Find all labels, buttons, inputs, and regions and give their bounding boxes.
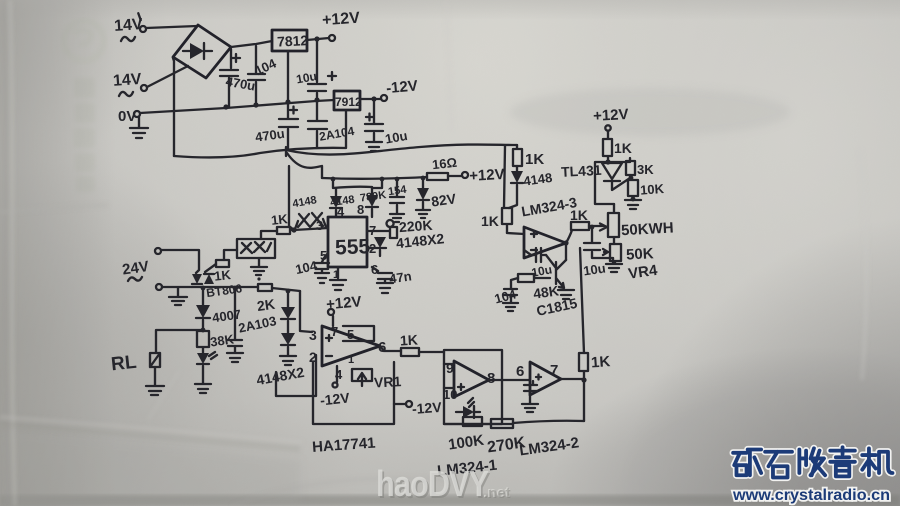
capacitor 10u A (308, 41, 336, 100)
thyristor pair BT806 (192, 274, 202, 284)
label LM324-3 (520, 194, 578, 220)
ground LED (195, 384, 211, 393)
resistor 100K (463, 417, 482, 426)
potentiometer 50K VR4 (603, 244, 621, 263)
diode 4148 b (516, 166, 518, 171)
ground 2A103 (227, 353, 243, 362)
resistor 220K pin7 (367, 220, 397, 238)
AC squiggle 1 (121, 37, 135, 41)
watermark green vertical text (74, 78, 95, 192)
diode 4148 a (pin4) (330, 188, 342, 217)
svg-text:+12V: +12V (322, 10, 361, 30)
bridge inner diode symbol (190, 43, 204, 59)
svg-text:1: 1 (348, 354, 354, 366)
pin5 box HA17741 (343, 326, 374, 341)
wire arrow to 50K wiper (589, 224, 607, 231)
ground diode box (251, 258, 267, 275)
node -12V (pin4) label (319, 389, 351, 408)
svg-text:.net: .net (484, 485, 511, 502)
terminal +12V TL431 (605, 125, 610, 130)
label 4148X2 (255, 364, 306, 388)
IC 555 (328, 217, 367, 267)
label TL431 (561, 162, 602, 180)
wire 1K to LM324-1 (419, 351, 444, 353)
capacitor LM324-2 input (524, 375, 541, 404)
resistor 38K (197, 331, 209, 353)
capacitor 2A104 (308, 102, 327, 148)
svg-text:RL: RL (110, 352, 138, 376)
svg-text:3K: 3K (637, 162, 654, 177)
svg-text:1K: 1K (400, 332, 419, 349)
svg-text:VR1: VR1 (374, 373, 402, 390)
ground 82V (416, 210, 430, 218)
resistor 1K out (401, 348, 419, 356)
resistor 1K e (571, 222, 589, 230)
wire 16R to terminal (448, 175, 461, 177)
wire 24V B to BT806 rail (162, 286, 192, 288)
wire left drop to 1K pin3 (289, 166, 294, 230)
wire bottom rail LM324 (444, 421, 584, 424)
wire 7812 gnd leg (287, 51, 289, 101)
op-amp U-LM324-3 (524, 227, 566, 258)
diode pair 4148 X at pin3 (295, 213, 326, 229)
capacitor 47n pin6 (372, 267, 392, 282)
node -12V label (385, 77, 418, 97)
wire 1K to +input (507, 233, 524, 234)
wire box left to 1K b (224, 250, 237, 260)
ground 4148X2 (280, 356, 296, 365)
wire to RL (156, 330, 203, 353)
svg-text:TL431: TL431 (561, 162, 602, 180)
svg-text:2K: 2K (256, 296, 276, 314)
terminal +12V mid (462, 172, 468, 178)
resistor 3K (626, 158, 635, 175)
wire 7812 to +12V terminal (307, 38, 329, 40)
svg-text:1K: 1K (270, 211, 289, 228)
input stubs LM324-1 (444, 364, 454, 388)
op-amp U-HA17741 (322, 326, 380, 366)
regulator U-7912 (334, 91, 360, 110)
svg-text:1K: 1K (213, 267, 232, 284)
wire op-amp pin2 loop (276, 355, 316, 396)
diode 4148X2 a (287, 291, 289, 307)
svg-text:-12V: -12V (411, 399, 442, 417)
potentiometer VR1 (352, 369, 372, 386)
svg-text:555: 555 (335, 235, 371, 259)
wire bridge minus to bottom rail (173, 58, 174, 156)
watermark green logo top-left (64, 21, 104, 61)
ground TL431 divider (625, 200, 641, 209)
wire 8 to 6 (489, 379, 530, 381)
wire 1K b to BT806 (205, 264, 216, 272)
resistor 10K (628, 175, 638, 199)
svg-text:6: 6 (516, 363, 524, 380)
diode LM324-1 fb (463, 406, 474, 418)
label LM324-2 (518, 434, 580, 459)
terminal +12V out (329, 35, 335, 41)
svg-text:50KWH: 50KWH (621, 219, 674, 239)
diode 4007 (196, 305, 210, 318)
node -12V right label (411, 399, 442, 417)
svg-text:+12V: +12V (593, 106, 629, 125)
ground pin1 (330, 267, 346, 290)
node 14V input A label (113, 13, 143, 35)
op-amp U-LM324-2 (530, 362, 561, 395)
wire to op-amp pin3 (300, 291, 312, 332)
diode box bidirectional (237, 239, 275, 258)
potentiometer 50KWH (608, 204, 619, 244)
diode 4148X2 b (281, 333, 295, 345)
AC squiggle 24V (128, 277, 142, 281)
ground 104 C (503, 303, 518, 311)
wire bridge out to 7812 (231, 41, 272, 47)
label VR4 (627, 262, 659, 283)
ground 154 (390, 214, 404, 222)
ground cap LM324-2 (522, 404, 538, 412)
ground C1815 emitter (558, 290, 574, 299)
svg-text:50K: 50K (626, 245, 655, 263)
wire opamp3 output up (566, 230, 572, 243)
relay contact RL (150, 353, 160, 367)
capacitor 154 (390, 179, 404, 213)
svg-text:www.crystalradio.cn: www.crystalradio.cn (732, 487, 890, 504)
wire vertical W1 branch to 1K mid (504, 146, 505, 207)
svg-text:1K: 1K (570, 207, 588, 223)
label HA17741 (312, 435, 376, 456)
capacitor 10u B (365, 101, 383, 141)
svg-text:1K: 1K (481, 213, 499, 229)
resistor 1K vert right (579, 353, 588, 380)
wire 24V A to BT806 top (161, 250, 199, 273)
feedback box HA17741 (313, 362, 394, 424)
ground 10u D (606, 258, 622, 272)
wire pin6 output (380, 346, 401, 351)
node +12V TL431 label (593, 106, 629, 125)
wire BT806 to 4007 (202, 288, 204, 305)
wire BT806 bottom rail (192, 286, 258, 288)
svg-text:5: 5 (347, 327, 354, 342)
AC squiggle 2 (119, 92, 133, 96)
wire to -12V right terminal (394, 403, 406, 405)
resistor 270K (491, 419, 513, 428)
ground 24V B (169, 288, 187, 305)
capacitor 104 C (504, 278, 518, 302)
wire bottom rail riser to long wires (285, 147, 287, 156)
svg-text:1K: 1K (590, 353, 610, 371)
wire long W2 +12V feed (287, 153, 322, 178)
svg-text:10: 10 (443, 387, 457, 402)
capacitor 2A103 (228, 288, 242, 352)
bridge rectifier D1-D4 (173, 25, 231, 78)
svg-text:8: 8 (487, 370, 495, 387)
svg-text:7: 7 (550, 362, 558, 379)
zener 7808 (pin8) (366, 187, 378, 217)
wire C1815 collector up (565, 244, 567, 260)
wire W3 diode-row rail (333, 179, 372, 188)
junction dots 0V rail (223, 104, 228, 109)
svg-text:3: 3 (309, 327, 317, 343)
wire 1K to pin3 (294, 228, 328, 230)
capacitor 470u A (220, 49, 240, 107)
svg-text:9: 9 (446, 360, 454, 376)
terminal 14V A (140, 26, 146, 32)
wire 1K left to diode box (261, 231, 277, 239)
node 24V label (121, 258, 150, 279)
wire bottom rail (174, 111, 346, 157)
terminal 24V B (156, 284, 162, 290)
box LM324-1 (444, 350, 502, 424)
resistor 16R (427, 173, 448, 180)
regulator U-7812 (272, 30, 307, 51)
wire 14V B to bridge (147, 66, 188, 87)
ground 47n (377, 283, 393, 293)
svg-text:-12V: -12V (319, 389, 351, 408)
ground 0V (130, 117, 148, 138)
wire LM324-2 out (561, 378, 584, 380)
resistor 1K f (603, 131, 612, 162)
ground RL (146, 367, 164, 395)
terminal 0V (134, 111, 140, 117)
diode 4148X2 right pair (374, 237, 386, 248)
resistor 1K top right (513, 145, 522, 166)
svg-text:4: 4 (337, 204, 345, 219)
resistor 1K b (216, 260, 229, 267)
svg-text:14V: 14V (114, 16, 144, 35)
capacitor 104 A (248, 46, 265, 104)
terminal 24V A (155, 248, 161, 254)
LED indicator (197, 353, 209, 364)
resistor 48K (518, 274, 550, 282)
svg-text:8: 8 (357, 202, 364, 217)
capacitor 104 pin5 (315, 253, 329, 272)
zener 82V (417, 178, 429, 209)
node +12V (pin7) label (325, 293, 362, 313)
svg-text:16Ω: 16Ω (431, 155, 457, 173)
svg-text:0V: 0V (118, 108, 136, 125)
capacitor 470u B (279, 104, 298, 149)
resistor 1K mid (502, 208, 512, 233)
node 14V input B label (112, 71, 142, 90)
wire 7912 out to -12V terminal (360, 98, 381, 100)
wire 2K to 4148X2 (272, 288, 300, 291)
capacitor 10u D (584, 229, 613, 258)
riser pin8 top rail (372, 179, 382, 188)
svg-text:+12V: +12V (469, 166, 505, 185)
svg-text:14V: 14V (112, 71, 142, 90)
wire long vertical up to C1815 area (580, 248, 584, 353)
resistor 1K pin3 (277, 227, 294, 234)
resistor 2K (258, 284, 272, 291)
svg-text:1K: 1K (525, 151, 544, 168)
capacitor 10u C (536, 248, 541, 262)
wire 0V rail (140, 100, 334, 113)
wire W2 horizontal (322, 177, 427, 179)
label LM324-1 (436, 457, 497, 480)
terminal 14V B (141, 85, 147, 91)
wire pin4 to -12V terminal (336, 366, 338, 382)
transistor C1815 (546, 255, 566, 288)
wire rail up right side (583, 380, 585, 421)
svg-text:+12V: +12V (325, 293, 362, 313)
wire 14V A to bridge (146, 26, 197, 28)
svg-text:7912: 7912 (335, 95, 362, 109)
svg-text:7812: 7812 (277, 32, 309, 50)
node +12V mid label (469, 166, 505, 185)
opamp input marks (326, 335, 332, 356)
svg-text:10K: 10K (640, 181, 665, 198)
node +12V label (322, 10, 361, 30)
wire -input to cap (524, 250, 546, 255)
ground 10u B (366, 142, 382, 151)
terminal -12V out (381, 95, 387, 101)
watermark haoDVY.net (376, 465, 490, 506)
wire long W1 to right section (286, 145, 517, 155)
INK (0, 0, 1, 1)
shunt ref TL431 (602, 163, 622, 179)
svg-text:1K: 1K (614, 140, 632, 156)
wire pin7 to +12V terminal (332, 316, 334, 326)
op-amp U-LM324-1 (454, 361, 489, 397)
svg-text:haoDVY: haoDVY (376, 465, 489, 505)
svg-text:-12V: -12V (385, 77, 418, 97)
ground 104 pin5 (315, 273, 329, 283)
wire TL431 box (595, 162, 630, 204)
svg-text:10u: 10u (582, 260, 606, 278)
